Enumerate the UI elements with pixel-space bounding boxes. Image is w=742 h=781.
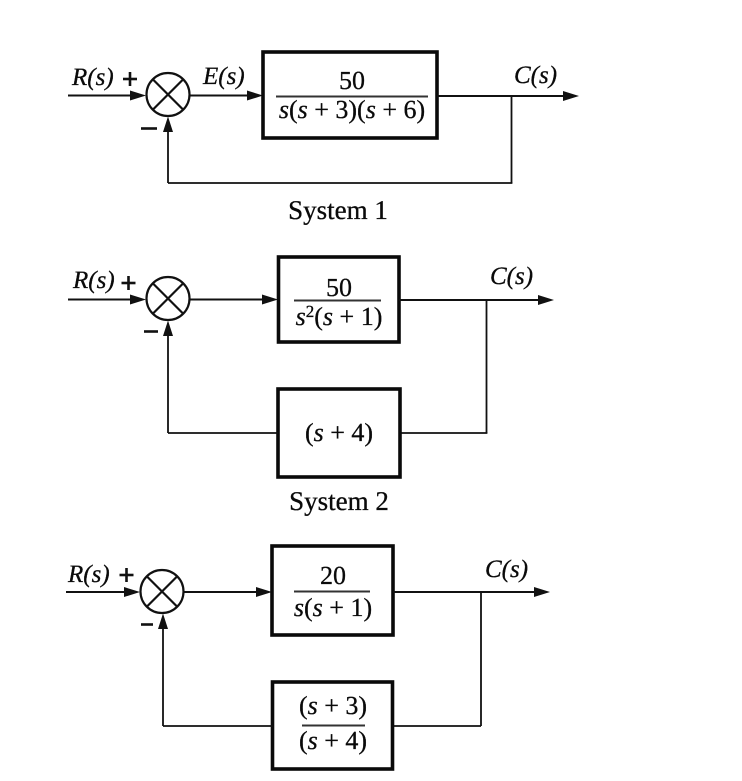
wire feedback right horizontal system 2 <box>400 432 487 434</box>
block G2: 50 / s^2(s+1) <box>279 257 400 342</box>
minus sign at summer S3 <box>141 623 153 626</box>
wire summer S3 to block G3 <box>184 587 273 597</box>
wire feedback left horizontal system 3 <box>163 725 273 727</box>
summing junction S3 <box>141 570 184 613</box>
label R(s) system 1 <box>71 64 114 91</box>
wire feedback vertical into summer S2 <box>163 321 173 434</box>
svg-text:50: 50 <box>339 66 365 95</box>
label C(s) system 2 <box>490 263 533 290</box>
svg-text:C(s): C(s) <box>490 263 533 290</box>
svg-text:System 1: System 1 <box>288 195 388 225</box>
svg-text:(s + 4): (s + 4) <box>305 418 373 447</box>
plus sign at summer S1 input <box>123 72 137 86</box>
label E(s) <box>202 63 245 90</box>
minus sign at summer S2 <box>144 330 158 333</box>
svg-text:C(s): C(s) <box>514 62 557 89</box>
label C(s) system 1 <box>514 62 557 89</box>
svg-text:20: 20 <box>320 561 346 590</box>
block G1: 50 / s(s+3)(s+6) <box>263 52 437 138</box>
wire block G1 output to C(s) arrow <box>437 91 579 101</box>
minus sign at summer S1 <box>141 127 157 130</box>
svg-text:E(s): E(s) <box>202 63 245 90</box>
svg-text:(s + 4): (s + 4) <box>299 726 367 755</box>
caption System 1 <box>288 195 388 225</box>
caption System 2 <box>289 486 389 516</box>
wire input arrow into summer S2 <box>68 295 146 305</box>
plus sign at summer S3 input <box>120 568 134 582</box>
svg-text:R(s): R(s) <box>67 561 110 588</box>
wire feedback left horizontal system 2 <box>168 432 278 434</box>
svg-text:s(s + 1): s(s + 1) <box>294 593 372 622</box>
wire takeoff vertical system 1 <box>511 96 513 183</box>
wire feedback horizontal system 1 <box>168 182 512 184</box>
wire summer S1 to block G1 <box>190 91 264 101</box>
svg-text:50: 50 <box>326 273 352 302</box>
svg-text:R(s): R(s) <box>71 64 114 91</box>
wire takeoff vertical system 3 <box>480 592 482 726</box>
wire block G2 output to C(s) arrow <box>399 295 554 305</box>
summing junction S1 <box>147 73 190 116</box>
wire feedback vertical into summer S1 <box>163 117 173 184</box>
svg-text:C(s): C(s) <box>485 556 528 583</box>
wire takeoff vertical system 2 <box>486 300 488 433</box>
wire input arrow into summer S3 <box>66 587 140 597</box>
wire feedback right horizontal system 3 <box>393 725 481 727</box>
block G3: 20 / s(s+1) <box>272 546 393 635</box>
block H3: (s+3)/(s+4) <box>273 682 393 769</box>
svg-text:System 2: System 2 <box>289 486 389 516</box>
label R(s) system 3 <box>67 561 110 588</box>
block H2: (s+4) <box>278 389 400 477</box>
svg-text:(s + 3): (s + 3) <box>299 691 367 720</box>
plus sign at summer S2 input <box>122 276 136 290</box>
wire block G3 output to C(s) arrow <box>393 587 550 597</box>
svg-text:R(s): R(s) <box>72 267 115 294</box>
wire feedback vertical into summer S3 <box>158 614 168 727</box>
wire input arrow into summer S1 <box>68 91 146 101</box>
svg-text:s(s + 3)(s + 6): s(s + 3)(s + 6) <box>279 95 425 124</box>
wire summer S2 to block G2 <box>190 295 279 305</box>
label C(s) system 3 <box>485 556 528 583</box>
summing junction S2 <box>147 277 190 320</box>
label R(s) system 2 <box>72 267 115 294</box>
